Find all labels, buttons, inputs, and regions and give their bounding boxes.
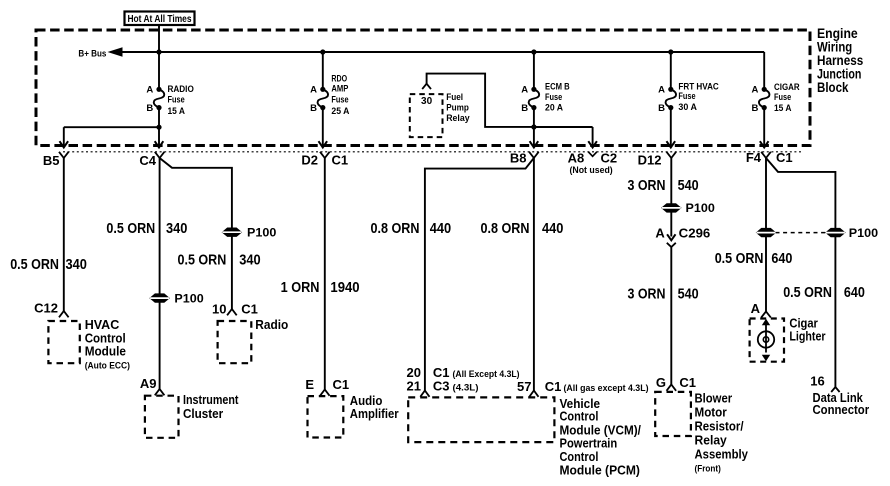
svg-text:Fuse: Fuse [678,91,695,101]
svg-text:B: B [658,103,665,114]
svg-text:Amplifier: Amplifier [350,406,399,421]
svg-text:(All Except 4.3L): (All Except 4.3L) [453,369,520,380]
svg-text:(4.3L): (4.3L) [453,383,479,394]
svg-text:FRT HVAC: FRT HVAC [678,82,719,92]
svg-text:C2: C2 [601,150,618,165]
svg-text:C1: C1 [332,153,349,168]
svg-text:B: B [521,103,528,114]
svg-text:C3: C3 [433,379,450,394]
svg-text:P100: P100 [686,201,716,215]
svg-text:C1: C1 [241,301,258,316]
svg-text:A9: A9 [140,376,157,391]
svg-text:0.8 ORN: 0.8 ORN [371,221,420,237]
svg-text:RDO: RDO [331,74,347,84]
svg-text:Fuse: Fuse [168,95,185,105]
svg-text:(All gas except 4.3L): (All gas except 4.3L) [564,383,649,394]
svg-text:C12: C12 [34,301,58,316]
svg-text:1940: 1940 [330,280,359,296]
svg-text:340: 340 [166,221,187,237]
svg-text:440: 440 [542,221,563,237]
svg-text:Cluster: Cluster [183,406,223,421]
svg-text:F4: F4 [746,150,762,165]
svg-text:0.5 ORN: 0.5 ORN [106,221,155,237]
svg-text:0.5 ORN: 0.5 ORN [10,257,59,273]
svg-text:640: 640 [771,251,792,267]
svg-text:Hot At All Times: Hot At All Times [128,14,192,25]
svg-text:A: A [521,85,528,96]
svg-text:AMP: AMP [331,83,348,93]
svg-text:A: A [655,225,665,240]
svg-text:Fuse: Fuse [331,94,348,104]
svg-text:E: E [305,377,314,392]
svg-text:A: A [752,85,759,96]
svg-text:A: A [146,85,153,96]
svg-text:B: B [752,103,759,114]
svg-text:A: A [751,301,761,316]
svg-text:Fuse: Fuse [774,92,791,102]
svg-text:Instrument: Instrument [183,392,239,407]
svg-text:640: 640 [844,285,865,301]
svg-text:(Not used): (Not used) [570,165,613,175]
svg-text:B: B [146,103,153,114]
svg-text:C1: C1 [333,377,350,392]
svg-text:P100: P100 [849,226,879,240]
svg-text:340: 340 [239,253,260,269]
svg-text:0.5 ORN: 0.5 ORN [178,253,227,269]
svg-text:57: 57 [517,379,531,394]
svg-text:340: 340 [66,257,87,273]
svg-text:C296: C296 [679,225,711,240]
svg-text:Module (PCM): Module (PCM) [560,463,640,478]
svg-text:Fuse: Fuse [545,92,562,102]
svg-text:Blower: Blower [695,390,733,405]
svg-text:P100: P100 [247,226,277,240]
svg-text:540: 540 [678,287,699,303]
svg-text:3 ORN: 3 ORN [628,178,666,194]
svg-text:(Auto ECC): (Auto ECC) [85,360,130,370]
svg-text:Fuel: Fuel [446,92,463,102]
svg-text:(Front): (Front) [695,463,721,473]
svg-text:Relay: Relay [695,432,728,447]
svg-text:Motor: Motor [695,404,727,419]
svg-text:C4: C4 [139,153,156,168]
svg-text:C1: C1 [776,150,793,165]
svg-text:440: 440 [430,221,451,237]
svg-text:C1: C1 [545,379,562,394]
svg-text:Radio: Radio [255,317,288,332]
svg-text:1 ORN: 1 ORN [281,280,320,296]
svg-text:C1: C1 [679,375,696,390]
svg-text:540: 540 [678,178,699,194]
svg-text:30 A: 30 A [678,102,697,112]
svg-text:30: 30 [421,96,433,107]
svg-text:3 ORN: 3 ORN [628,287,666,303]
svg-text:21: 21 [407,379,421,394]
svg-text:0.5 ORN: 0.5 ORN [783,285,832,301]
svg-text:Assembly: Assembly [695,447,749,462]
svg-text:15 A: 15 A [168,106,186,116]
svg-text:D2: D2 [301,153,318,168]
svg-text:P100: P100 [174,291,204,305]
svg-text:CIGAR: CIGAR [774,82,800,92]
svg-text:Block: Block [817,80,849,95]
svg-text:RADIO: RADIO [168,84,194,94]
svg-text:Relay: Relay [446,113,469,123]
svg-text:B8: B8 [510,151,527,166]
svg-text:Resistor/: Resistor/ [695,419,744,434]
svg-text:15 A: 15 A [774,103,792,113]
svg-text:Module: Module [85,344,126,359]
svg-text:A8: A8 [568,150,585,165]
svg-text:0.5 ORN: 0.5 ORN [715,251,764,267]
svg-text:Control: Control [560,449,599,464]
svg-text:Control: Control [560,409,599,424]
svg-text:0.8 ORN: 0.8 ORN [481,221,530,237]
svg-text:B5: B5 [43,153,60,168]
svg-text:Lighter: Lighter [789,328,825,343]
svg-text:A: A [310,85,317,96]
svg-text:10: 10 [212,301,226,316]
svg-text:ECM B: ECM B [545,82,570,92]
svg-text:20 A: 20 A [545,103,563,113]
svg-text:D12: D12 [638,153,662,168]
svg-text:A: A [658,85,665,96]
svg-text:Pump: Pump [446,102,469,112]
svg-text:B+ Bus: B+ Bus [78,48,106,59]
svg-text:16: 16 [810,373,824,388]
svg-text:25 A: 25 A [331,106,349,116]
svg-text:B: B [310,103,317,114]
svg-text:Connector: Connector [813,402,870,417]
svg-text:G: G [656,375,666,390]
